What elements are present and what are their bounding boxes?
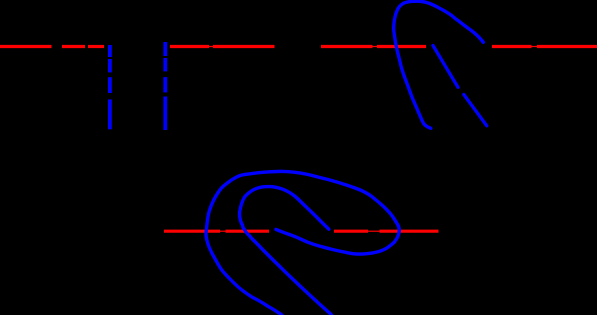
top red dashed line (core curve alpha) bbox=[0, 45, 597, 48]
bottom red dashed line (core curve alpha) bbox=[164, 230, 439, 233]
blue dashed vertical strand 2 of beta bbox=[163, 42, 167, 130]
blue hidden dashed diagonal (behind annulus) bbox=[433, 46, 487, 126]
blue stroke Q: inner spiral of twisted curve bbox=[240, 187, 332, 315]
blue arch (twisted strand, top right) bbox=[394, 1, 484, 128]
red taper pinch connectors bbox=[206, 47, 539, 232]
blue stroke P: outer spiral of twisted curve bbox=[206, 171, 399, 315]
blue dashed vertical strand 1 of beta bbox=[108, 45, 112, 129]
